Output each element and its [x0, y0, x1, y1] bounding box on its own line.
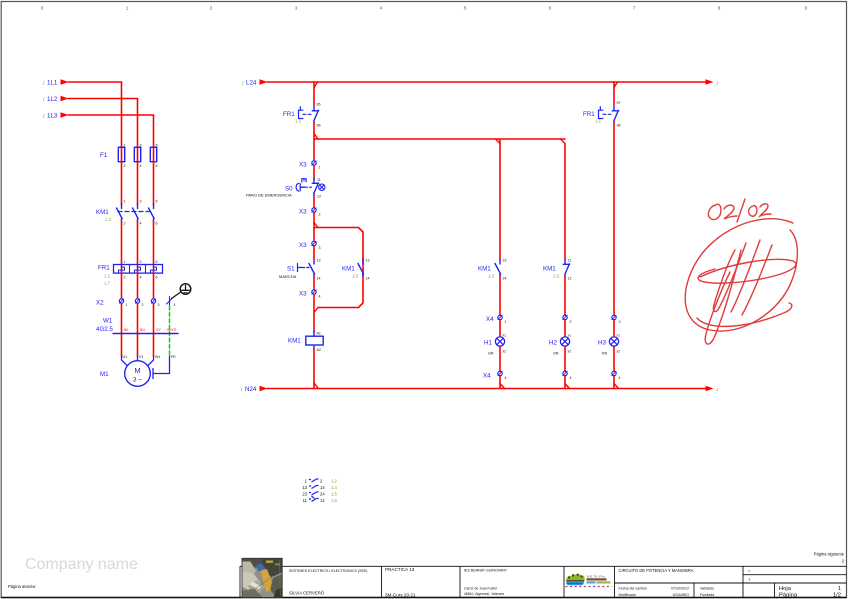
motor lead W1: [146, 356, 154, 368]
wire X2 to motor pole1: [121, 304, 123, 357]
KM1 NC contact 11-12: [563, 260, 569, 277]
svg-text:KM1: KM1: [96, 209, 109, 216]
svg-text:12: 12: [568, 277, 572, 281]
svg-text:5: 5: [464, 6, 467, 11]
svg-text:+: +: [748, 577, 751, 582]
svg-text:U1: U1: [123, 355, 128, 359]
junction rail2/H1 tick: [496, 139, 501, 144]
S0 mushroom head: [296, 183, 304, 191]
horizontal divider under title row: [615, 582, 847, 584]
FR1 95-96 contact: [312, 106, 318, 123]
KM1 linkage dashed line: [118, 211, 150, 213]
svg-text:2: 2: [841, 559, 844, 564]
FR1 97-98 thermal paddle: [599, 107, 612, 119]
svg-text:11: 11: [303, 498, 308, 503]
junction L24/main: [314, 82, 318, 88]
svg-text:1.4: 1.4: [331, 485, 337, 490]
svg-text:98: 98: [617, 124, 621, 128]
KM1 pin numbers: [124, 200, 158, 226]
svg-text:X4: X4: [486, 316, 494, 323]
svg-text:S0: S0: [285, 186, 293, 193]
KM1 aux NO contact 13-14: [358, 260, 364, 277]
svg-text:2: 2: [142, 303, 144, 307]
xref contact glyphs: [309, 479, 319, 502]
wire KM1 to FR1 pole1: [121, 221, 123, 274]
wire FR1 to X2 pole2: [137, 273, 139, 299]
S1 actuator dashes: [302, 267, 309, 269]
svg-text:23: 23: [302, 492, 307, 497]
node L1 label: [43, 80, 58, 88]
svg-text:X2: X2: [96, 300, 104, 307]
svg-text:4G2.5: 4G2.5: [96, 326, 113, 333]
wire X2 to motor pole2: [137, 304, 139, 357]
wire L1 vertical to fuse: [121, 82, 123, 147]
svg-text:KM1: KM1: [543, 266, 556, 273]
svg-text:A1: A1: [317, 332, 321, 336]
svg-text:X4: X4: [483, 373, 491, 380]
junction N24/main tick: [314, 383, 318, 388]
wire X4:1 to H1: [499, 320, 501, 336]
svg-text:A2: A2: [317, 348, 321, 352]
S0 NC contact: [312, 179, 318, 196]
svg-text:Página: Página: [779, 592, 798, 598]
svg-text:1: 1: [838, 586, 841, 592]
svg-text:1.1: 1.1: [595, 119, 602, 124]
ruler column numbers: [41, 6, 808, 11]
svg-text:13: 13: [302, 485, 307, 490]
KM1 NO contact 23-24: [495, 260, 501, 277]
svg-text:3: 3: [619, 320, 621, 324]
svg-text:OR: OR: [553, 352, 559, 356]
svg-text:14: 14: [320, 485, 325, 490]
svg-text:X3: X3: [299, 209, 307, 216]
FR1 heater element pole2: [135, 265, 141, 274]
svg-text:2: 2: [210, 6, 213, 11]
svg-text:1L3: 1L3: [47, 113, 58, 120]
wire X3:2 down: [313, 213, 315, 244]
svg-text:PARO DE EMERGENCIA: PARO DE EMERGENCIA: [246, 193, 292, 198]
svg-text:GR: GR: [488, 352, 494, 356]
node N24 label: [241, 386, 257, 394]
wire coil to N24: [313, 349, 315, 388]
svg-text:23: 23: [503, 259, 507, 263]
FR1 97-98 contact: [612, 106, 618, 123]
terminal X4:2: [563, 315, 567, 319]
svg-text:BK: BK: [124, 328, 129, 332]
S0 latch symbol: [302, 179, 306, 183]
svg-text:GY: GY: [156, 328, 162, 332]
svg-text:12: 12: [320, 498, 325, 503]
node L2 arrow: [61, 96, 69, 101]
svg-text:8: 8: [718, 6, 721, 11]
node L24 label: [242, 80, 257, 88]
wire FR1 to X2 pole3: [153, 273, 155, 299]
svg-text:X3: X3: [299, 242, 307, 249]
svg-text:4: 4: [140, 164, 142, 168]
wire H2 to X4:5: [564, 347, 566, 374]
svg-text:KM1: KM1: [288, 338, 301, 345]
divider after logo cell: [614, 566, 616, 597]
svg-text:3: 3: [319, 246, 321, 250]
terminal X2:2: [135, 299, 139, 303]
svg-text:1/2: 1/2: [833, 592, 841, 598]
node L24 arrow left: [260, 79, 268, 84]
wire rail2 to lamps: [314, 138, 565, 140]
terminal X2:3: [151, 299, 155, 303]
junction N24/H1 tick: [500, 384, 505, 389]
lamp H1: [495, 337, 504, 346]
wire X4:2 to H2: [564, 320, 566, 336]
wire X4:3 to H3: [613, 320, 615, 336]
terminal X4:4: [498, 371, 502, 375]
svg-text:Validado: Validado: [700, 587, 714, 591]
wire L24 rail: [267, 81, 707, 83]
terminal X3:3: [312, 241, 316, 245]
wire rail4 from KM1 aux: [318, 258, 363, 308]
svg-text:GNYE: GNYE: [167, 328, 177, 332]
terminal X4:1: [498, 315, 502, 319]
terminal X4:5: [563, 371, 567, 375]
svg-text:M1: M1: [100, 371, 109, 378]
svg-text:6: 6: [549, 6, 552, 11]
motor terminal labels U1 V1 W1 PE: [123, 355, 177, 359]
ground symbol: [180, 284, 191, 295]
wire H3 drop from L24: [613, 82, 615, 105]
svg-text:F1: F1: [100, 152, 108, 159]
svg-text:RD: RD: [602, 352, 608, 356]
svg-text:H3: H3: [598, 340, 606, 347]
equals/plus divider: [743, 574, 847, 576]
corner rail2/H2: [561, 139, 566, 144]
node N24 arrow left: [260, 386, 268, 391]
svg-text:11: 11: [568, 259, 572, 263]
wire rail3 branch to KM1 aux: [314, 228, 363, 259]
svg-text:24: 24: [320, 492, 325, 497]
svg-text:1: 1: [319, 166, 321, 170]
motor PE terminal bar: [152, 369, 154, 379]
svg-text:Fecha del cambio: Fecha del cambio: [619, 587, 647, 591]
wire L2 horizontal: [68, 98, 138, 100]
junction rail3 tick: [314, 223, 318, 228]
svg-text:Página anterior: Página anterior: [8, 584, 36, 589]
svg-text:1: 1: [124, 200, 126, 204]
PE green wire: [169, 306, 171, 356]
divider dates/validado: [693, 583, 695, 598]
wire X4:6 to N24: [613, 376, 615, 389]
title block top border: [240, 565, 847, 567]
svg-text:0: 0: [41, 6, 44, 11]
svg-text:2: 2: [124, 222, 126, 226]
earth conductor to ground symbol: [172, 293, 181, 299]
svg-text:3: 3: [140, 144, 142, 148]
svg-text:N24: N24: [245, 386, 257, 393]
wire H1 drop: [499, 139, 501, 259]
svg-text:x1: x1: [503, 334, 507, 338]
svg-text:FR1: FR1: [98, 265, 110, 272]
motor lead V1: [137, 356, 139, 361]
svg-text:5: 5: [156, 260, 158, 264]
svg-text:1.1: 1.1: [295, 119, 302, 124]
FR1 heater element pole1: [119, 265, 125, 274]
svg-text:1.6: 1.6: [331, 498, 337, 503]
KM1 main contact pole 1: [117, 204, 123, 221]
wire fuse to KM1 pole3: [153, 162, 155, 205]
svg-text:96: 96: [317, 124, 321, 128]
svg-text:Hoja: Hoja: [779, 586, 792, 592]
title block left border: [239, 566, 241, 597]
svg-text:1.3: 1.3: [488, 274, 495, 279]
wire main drop to FR1 contact: [313, 82, 315, 105]
wire to X4:2: [564, 276, 566, 318]
cable W1 line: [113, 333, 178, 335]
svg-text:1.2: 1.2: [331, 479, 337, 484]
wire X4:5 to N24: [564, 376, 566, 389]
svg-text:1: 1: [124, 260, 126, 264]
node L3 arrow: [61, 112, 69, 117]
wire S0 to X3:2: [313, 196, 315, 211]
thermal relay FR1 box: [114, 265, 163, 274]
FR1 pin numbers: [124, 260, 158, 280]
title block bottom border: [1, 597, 847, 599]
svg-text:1: 1: [505, 320, 507, 324]
svg-text:V1: V1: [139, 355, 143, 359]
divider after address cell: [563, 566, 565, 597]
conductor color codes: [124, 328, 177, 332]
svg-text:CIRCUITO DE POTENCIA Y MANIOBR: CIRCUITO DE POTENCIA Y MANIOBRA: [619, 568, 694, 573]
svg-text:x1: x1: [617, 334, 621, 338]
svg-text:14: 14: [366, 277, 370, 281]
svg-text:Company name: Company name: [25, 556, 138, 573]
svg-text:4: 4: [174, 303, 176, 307]
divider after school name cell: [381, 566, 383, 597]
svg-text:1: 1: [124, 144, 126, 148]
svg-text:95: 95: [317, 103, 321, 107]
svg-text:13: 13: [366, 259, 370, 263]
svg-text:3: 3: [295, 6, 298, 11]
svg-text:X3: X3: [299, 291, 307, 298]
svg-text:07/10/2012: 07/10/2012: [671, 587, 689, 591]
svg-text:9: 9: [805, 6, 808, 11]
fuse F1 pole 2: [134, 147, 140, 162]
svg-text:1L2: 1L2: [47, 96, 58, 103]
divider after practica cell: [459, 566, 461, 597]
lamp H2: [560, 337, 569, 346]
svg-text:IES BERNAT GUINOVART: IES BERNAT GUINOVART: [464, 569, 508, 573]
terminal X2:4 PE attach: [167, 297, 173, 306]
divider title/equals: [742, 566, 744, 597]
lamp H3: [609, 337, 618, 346]
N24 arrow right: [706, 386, 714, 391]
svg-text:M: M: [134, 366, 140, 375]
motor M1 circle: [125, 361, 151, 387]
svg-text:KM1: KM1: [478, 266, 491, 273]
L24 arrow right: [706, 79, 714, 84]
wire L3 horizontal: [68, 114, 154, 116]
svg-text:PRACTICA 13: PRACTICA 13: [385, 567, 415, 572]
FR1 thermal paddle: [299, 107, 312, 119]
svg-text:FR1: FR1: [283, 111, 295, 118]
wire L1 horizontal: [68, 81, 122, 83]
node L3 label: [43, 113, 58, 121]
S1 NO contact: [309, 260, 315, 277]
terminal X3:4: [312, 290, 316, 294]
svg-text:x2: x2: [503, 350, 507, 354]
contactor coil KM1: [306, 332, 323, 350]
wire FR1 to X4:3: [613, 123, 615, 318]
svg-text:W1: W1: [155, 355, 160, 359]
wire fuse to KM1 pole2: [137, 162, 139, 205]
svg-text:SISTEMES ELECTRICS I ELECTRONI: SISTEMES ELECTRICS I ELECTRONICS (SEE): [289, 569, 367, 573]
wire X3:4 down to coil: [313, 295, 315, 333]
motor lead U1: [122, 356, 130, 368]
S0 actuator dashes: [305, 186, 312, 188]
svg-text:1L1: 1L1: [47, 80, 58, 87]
svg-text:6: 6: [156, 276, 158, 280]
svg-text:97: 97: [617, 101, 621, 105]
wire to X4:1: [499, 276, 501, 318]
junction N24/H3 tick: [614, 384, 619, 389]
S1 button actuator: [298, 264, 303, 272]
svg-text:2: 2: [124, 276, 126, 280]
svg-text:1.1: 1.1: [104, 274, 111, 279]
wire S1 to X3:4: [313, 276, 315, 292]
wire X3:1 to S0: [313, 166, 315, 180]
svg-text:4: 4: [140, 222, 142, 226]
svg-text:USUARIO: USUARIO: [673, 593, 690, 597]
X2 pin numbers: [126, 303, 176, 307]
svg-text:4: 4: [505, 376, 507, 380]
divider before hoja cell: [774, 583, 776, 598]
terminal X3:1: [312, 161, 316, 165]
handwritten date 02/02: [708, 199, 771, 222]
wire FR1 to junction: [313, 123, 315, 164]
svg-text:4: 4: [319, 295, 321, 299]
wire KM1 to FR1 pole3: [153, 221, 155, 274]
title block photo: [242, 558, 282, 597]
wire H3 to X4:6: [613, 347, 615, 374]
svg-text:3M-Curs 20-21: 3M-Curs 20-21: [385, 593, 416, 598]
wire fuse to KM1 pole1: [121, 162, 123, 205]
motor PE lead: [154, 356, 170, 374]
terminal X4:3: [612, 315, 616, 319]
svg-text:1.3: 1.3: [105, 217, 112, 222]
KM1 main contact pole 3: [149, 204, 155, 221]
wire X3:3 to S1: [313, 246, 315, 259]
svg-text:4: 4: [380, 6, 383, 11]
svg-text:x2: x2: [617, 350, 621, 354]
handwritten signature: [685, 219, 797, 344]
wire X4:4 to N24: [499, 376, 501, 389]
svg-text:=: =: [748, 569, 751, 574]
svg-text:KM1: KM1: [342, 266, 355, 273]
junction L24/H3 branch: [614, 82, 618, 88]
svg-text:4: 4: [570, 376, 572, 380]
svg-text:x2: x2: [568, 350, 572, 354]
svg-text:Modificado: Modificado: [619, 593, 636, 597]
svg-text:4: 4: [140, 276, 142, 280]
svg-text:46810, Algemesí, Valencia: 46810, Algemesí, Valencia: [464, 592, 504, 596]
svg-text:6: 6: [156, 222, 158, 226]
svg-text:H1: H1: [484, 340, 492, 347]
svg-text:Fundada: Fundada: [700, 593, 714, 597]
terminal X4:6: [612, 371, 616, 375]
terminal X3:2: [312, 208, 316, 212]
svg-text:3: 3: [140, 260, 142, 264]
wire X2 to motor pole3: [153, 304, 155, 357]
fuse pin numbers: [124, 144, 158, 169]
junction rail4 tick: [314, 308, 318, 313]
svg-text:FR1: FR1: [583, 111, 595, 118]
svg-text:SÍLVIA CERVERÓ: SÍLVIA CERVERÓ: [289, 591, 325, 596]
svg-text:W1: W1: [103, 318, 113, 325]
svg-text:13: 13: [317, 259, 321, 263]
svg-text:2: 2: [570, 320, 572, 324]
svg-text:H2: H2: [549, 340, 557, 347]
wire KM1 to FR1 pole2: [137, 221, 139, 274]
wire L2 vertical to fuse: [137, 99, 139, 148]
svg-text:3: 3: [140, 200, 142, 204]
svg-text:PE: PE: [171, 355, 176, 359]
svg-text:14: 14: [317, 277, 321, 281]
svg-text:24: 24: [503, 277, 507, 281]
svg-text:6: 6: [156, 164, 158, 168]
svg-text:x1: x1: [568, 334, 572, 338]
svg-text:7: 7: [633, 6, 636, 11]
terminal X2:1: [119, 299, 123, 303]
svg-text:1.3: 1.3: [352, 274, 359, 279]
S0 twist-release symbol: [319, 184, 325, 190]
node L2 label: [43, 96, 58, 104]
wire H1 to X4:4: [499, 347, 501, 374]
wire N24 rail: [267, 388, 707, 390]
svg-text:X3: X3: [299, 162, 307, 169]
svg-text:4: 4: [619, 376, 621, 380]
svg-text:5: 5: [156, 200, 158, 204]
svg-text:1.7: 1.7: [104, 281, 111, 286]
svg-text:Carrer de Juan Fuster: Carrer de Juan Fuster: [464, 587, 498, 591]
junction N24/H2 tick: [565, 384, 570, 389]
wire FR1 to X2 pole1: [121, 273, 123, 299]
junction rail2 tick: [314, 134, 318, 140]
svg-text:L24: L24: [246, 80, 257, 87]
FR1 heater element pole3: [151, 265, 157, 274]
school logo: [566, 574, 613, 587]
svg-text:Página siguiente: Página siguiente: [814, 552, 845, 557]
svg-text:2: 2: [319, 213, 321, 217]
svg-text:MARCHA: MARCHA: [279, 274, 297, 279]
svg-text:12: 12: [317, 195, 321, 199]
fuse F1 pole 3: [150, 147, 156, 162]
svg-text:2: 2: [124, 164, 126, 168]
svg-text:3: 3: [158, 303, 160, 307]
svg-text:S1: S1: [287, 266, 295, 273]
svg-text:3 ~: 3 ~: [133, 377, 142, 384]
wire L3 vertical to fuse: [153, 115, 155, 147]
svg-text:1: 1: [126, 6, 129, 11]
svg-text:11: 11: [317, 178, 321, 182]
svg-text:SUE TO i FUa: SUE TO i FUa: [587, 575, 606, 579]
svg-text:1: 1: [126, 303, 128, 307]
svg-text:1.5: 1.5: [331, 492, 337, 497]
svg-text:1.3: 1.3: [553, 274, 560, 279]
node L1 arrow: [61, 79, 69, 84]
svg-text:BN: BN: [140, 328, 145, 332]
KM1 main contact pole 2: [133, 204, 139, 221]
fuse F1 pole 1: [118, 147, 124, 162]
svg-text:5: 5: [156, 144, 158, 148]
wire H2 drop: [564, 144, 566, 260]
